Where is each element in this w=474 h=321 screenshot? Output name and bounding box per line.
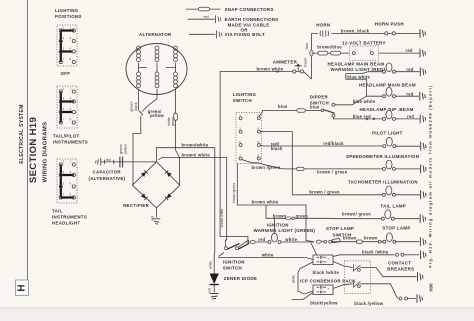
svg-text:SWITCH: SWITCH: [233, 98, 252, 103]
wire white linking condensor units: [298, 262, 313, 294]
svg-text:ELECTRICAL SYSTEM: ELECTRICAL SYSTEM: [19, 104, 25, 163]
wire brown/white upper from rectifier: [157, 148, 215, 162]
lighting switch position TAIL INSTRUMENTS HEADLIGHT: [52, 159, 87, 226]
dip beam bulb: [383, 110, 396, 120]
svg-text:white: white: [284, 237, 297, 242]
svg-text:(ALTERNATIVE): (ALTERNATIVE): [89, 176, 126, 181]
svg-text:HEADLAMP MAIN BEAM: HEADLAMP MAIN BEAM: [328, 61, 385, 66]
svg-text:brown: brown: [304, 58, 308, 68]
svg-text:CONTACT: CONTACT: [388, 261, 411, 266]
svg-text:red: red: [406, 48, 413, 53]
wire breaker 2 to earth black/yellow: [360, 284, 416, 299]
horn: [316, 22, 330, 36]
alternator coil L4: [137, 72, 141, 76]
coil interconnect wires: [139, 63, 176, 72]
svg-text:WIRING DIAGRAMS: WIRING DIAGRAMS: [43, 122, 49, 183]
svg-text:red: red: [406, 67, 413, 72]
ground horn row: [420, 29, 426, 38]
section tab letter H: [16, 280, 29, 295]
svg-text:black: black: [134, 102, 138, 110]
wire blue/red dipper to dip beam: [333, 117, 384, 119]
snap connector on speedo wire: [297, 167, 305, 170]
wire brown/green switch to speedometer: [258, 163, 297, 169]
wire brown white to ammeter: [220, 72, 293, 74]
ground contact breaker 1: [418, 272, 424, 281]
svg-text:brown, black: brown, black: [341, 28, 370, 33]
svg-text:blue white: blue white: [347, 74, 370, 79]
wire green/black from alternator: [133, 89, 143, 185]
ground battery row: [420, 49, 426, 58]
svg-text:brown/ green: brown/ green: [342, 212, 371, 217]
snap connector on tail feed: [286, 217, 291, 220]
svg-text:POSITIONS: POSITIONS: [55, 14, 82, 19]
main feed wire brown/blue vertical: [311, 33, 313, 79]
lighting switch terminal 2: [257, 117, 260, 120]
dipper switch DS: [310, 94, 335, 117]
svg-text:brown / green: brown / green: [317, 169, 348, 174]
svg-text:brown: brown: [364, 236, 378, 241]
stop lamp switch: [316, 226, 383, 243]
svg-text:brown/white: brown/white: [182, 143, 209, 148]
svg-text:PILOT LIGHT: PILOT LIGHT: [372, 131, 403, 136]
svg-text:black: black: [271, 146, 283, 151]
svg-text:blue: blue: [305, 43, 309, 50]
wire blue from switch terminal 2 to dipper: [259, 111, 297, 117]
svg-text:blue: blue: [310, 105, 320, 110]
legend: snap connector symbol: [186, 7, 221, 11]
svg-text:brown/blue: brown/blue: [317, 44, 342, 49]
snap connector on blue wire: [297, 109, 306, 112]
svg-text:RECTIFIER: RECTIFIER: [123, 203, 149, 208]
svg-text:WARNING LIGHT (GREEN): WARNING LIGHT (GREEN): [254, 228, 316, 233]
svg-text:SECTION H19: SECTION H19: [28, 117, 39, 183]
svg-text:SNAP CONNECTORS: SNAP CONNECTORS: [225, 7, 274, 12]
speedometer bulb: [383, 160, 396, 170]
ammeter A1: [273, 59, 312, 79]
svg-text:red: red: [106, 158, 111, 162]
lighting switch terminal 4: [257, 130, 260, 133]
battery B1 12-volt: [317, 40, 385, 60]
svg-text:brown / green: brown / green: [309, 190, 340, 195]
ground below rectifier: [153, 219, 161, 224]
stop lamp bulb: [383, 233, 396, 243]
svg-text:TAIL LAMP: TAIL LAMP: [380, 204, 406, 209]
svg-text:yellow: yellow: [150, 113, 165, 118]
stop switch feed from white wire: [311, 243, 318, 257]
ground tachometer row: [421, 190, 427, 199]
svg-text:brown/ white: brown/ white: [182, 152, 211, 157]
svg-text:TACHOMETER ILLUMINATION: TACHOMETER ILLUMINATION: [348, 180, 418, 185]
svg-text:SWITCH: SWITCH: [223, 265, 242, 270]
legend: earth via fixing bolt symbol: [189, 31, 222, 39]
svg-text:white: white: [292, 275, 296, 283]
svg-text:ALTERNATOR: ALTERNATOR: [139, 32, 172, 37]
svg-text:green: green: [296, 213, 309, 218]
svg-text:red: red: [407, 114, 414, 119]
svg-text:LIGHTING: LIGHTING: [233, 92, 257, 97]
wire white/green from alternator: [175, 89, 177, 113]
svg-text:red: red: [406, 91, 413, 96]
svg-text:brown /green: brown /green: [232, 183, 236, 203]
svg-text:HORN: HORN: [316, 22, 330, 27]
lighting switch terminal 7: [239, 157, 242, 160]
ground below zener: [210, 294, 219, 300]
lighting switch terminal 3: [239, 130, 242, 133]
bottom scan strip: [0, 308, 474, 321]
condensor unit 1: [313, 255, 333, 265]
lighting switch box: [233, 92, 262, 164]
svg-text:blue white: blue white: [353, 99, 376, 104]
svg-text:MADE VIA CABLE: MADE VIA CABLE: [228, 22, 270, 27]
capacitor red lead with snap connectors: [101, 157, 157, 168]
ground main beam row: [420, 92, 426, 101]
contact breaker housing: [345, 261, 371, 294]
svg-text:brown white: brown white: [220, 209, 224, 228]
alternator coil L3: [174, 46, 178, 50]
rectifier bridge frame: [132, 162, 179, 208]
tail lamp bulb: [381, 210, 394, 220]
capacitor (alternative) earth: [96, 158, 101, 166]
svg-text:red: red: [208, 288, 212, 293]
wire black/yellow condensor 2 stub: [292, 293, 314, 300]
svg-text:LIGHTING: LIGHTING: [55, 8, 79, 13]
lighting switch position TAIL/PILOT INSTRUMENTS: [53, 86, 88, 145]
ground warning light row: [420, 67, 426, 76]
condensor unit 2: [313, 285, 333, 295]
ground tail lamp row: [420, 214, 426, 223]
svg-text:OFF: OFF: [61, 71, 71, 76]
rectifier diode D4: [165, 193, 172, 200]
lighting switch position OFF: [57, 25, 77, 76]
wire red/black from switch terminal 6 to pilot: [260, 144, 385, 147]
ground dip beam row: [420, 115, 426, 124]
ground bottom row: [417, 294, 423, 303]
wire breaker 1 to earth: [360, 268, 416, 277]
alternator coil L1: [137, 46, 141, 50]
tachometer bulb: [382, 186, 395, 196]
lighting switch terminal 8: [257, 157, 260, 160]
lighting switch terminal 5: [239, 144, 242, 147]
legend: earth via cable symbol: [188, 15, 221, 23]
svg-text:blue red: blue red: [353, 114, 371, 119]
svg-text:SPEEDOMETER ILLUMINATION: SPEEDOMETER ILLUMINATION: [346, 154, 419, 159]
ignition warning lamp (green): [268, 233, 281, 243]
rectifier diode D2: [165, 170, 172, 177]
ground stop lamp row: [420, 237, 426, 246]
wire from switch terminal 4 down lamp feed: [260, 132, 292, 195]
svg-text:HEADLIGHT: HEADLIGHT: [52, 221, 80, 226]
svg-text:EARTH CONNECTIONS: EARTH CONNECTIONS: [225, 17, 279, 22]
bus B brown/white down to ignition: [225, 158, 226, 247]
svg-text:ZENER DIODE: ZENER DIODE: [224, 276, 257, 281]
warning lamp (red): [383, 63, 396, 73]
svg-text:STOP LAMP: STOP LAMP: [382, 225, 410, 230]
svg-text:red: red: [258, 237, 265, 242]
contact breaker 1: [354, 265, 361, 272]
wire white from ignition switch: [218, 257, 313, 259]
bus A brown/white down to ignition: [213, 148, 216, 259]
warning lamp red lead: [249, 241, 268, 243]
svg-text:Fig. H19. Wiring diagram all: Fig. H19. Wiring diagram all models from…: [428, 84, 433, 267]
svg-text:black /yellow: black /yellow: [354, 301, 383, 306]
pilot bulb: [383, 137, 396, 147]
rectifier diode D1: [141, 170, 148, 177]
ignition switch: [219, 243, 250, 270]
wire green/yellow from alternator centre coil: [142, 89, 157, 112]
main beam bulb: [383, 87, 396, 97]
svg-text:12-VOLT BATTERY: 12-VOLT BATTERY: [342, 40, 386, 45]
rectifier diode D3: [141, 193, 148, 200]
wire black/white condensor to breaker 1: [333, 262, 353, 268]
bus C ammeter feed down to ignition: [220, 73, 248, 247]
svg-text:brown: brown: [273, 213, 287, 218]
svg-text:BREAKERS: BREAKERS: [387, 267, 414, 272]
ground pilot row: [421, 142, 427, 151]
wire white down to zener: [213, 259, 215, 274]
warning light feed loop blue white: [346, 72, 383, 97]
svg-text:brown white: brown white: [252, 200, 279, 205]
svg-text:INSTRUMENTS: INSTRUMENTS: [52, 215, 87, 220]
battery row wire: [312, 52, 420, 54]
svg-text:ICP CONDENSOR PACK: ICP CONDENSOR PACK: [300, 279, 356, 284]
svg-text:WARNING LIGHT (RED): WARNING LIGHT (RED): [331, 67, 386, 72]
alternator coil L5: [155, 72, 159, 76]
wire blue/white dipper to main beam: [335, 96, 367, 105]
svg-text:green: green: [171, 117, 175, 126]
lighting switch terminal 6: [257, 144, 260, 147]
svg-text:STOP LAMP: STOP LAMP: [326, 226, 354, 231]
svg-text:black /white: black /white: [362, 249, 389, 254]
wire brown/white lower from rectifier: [158, 158, 226, 161]
svg-text:IGNITION: IGNITION: [267, 222, 289, 227]
svg-text:brown: brown: [343, 236, 357, 241]
svg-text:red: red: [204, 15, 209, 19]
alternator coil L6: [174, 72, 178, 76]
lighting switch terminal 1: [239, 117, 242, 120]
svg-text:red/black: red/black: [323, 141, 344, 146]
svg-text:CAPACITOR: CAPACITOR: [93, 170, 122, 175]
alternator coil L2: [155, 46, 159, 50]
sidebar rule: [26, 0, 28, 280]
svg-text:H30: H30: [429, 283, 434, 292]
svg-text:blue: blue: [278, 104, 288, 109]
ground black/white row: [421, 250, 427, 259]
svg-text:TAIL: TAIL: [52, 209, 63, 214]
wire black/white condensor to black/white row: [333, 255, 395, 257]
svg-text:white: white: [208, 261, 212, 269]
horn row wire: [312, 32, 420, 34]
svg-text:HORN PUSH: HORN PUSH: [375, 21, 404, 26]
svg-text:yellow: yellow: [123, 144, 127, 154]
svg-text:HEADLAMP MAIN BEAM: HEADLAMP MAIN BEAM: [359, 83, 416, 88]
svg-text:black /white: black /white: [313, 270, 340, 275]
wire brown green to tail feed: [266, 205, 336, 219]
warning lamp white lead: [281, 241, 314, 243]
svg-text:+: +: [328, 287, 330, 291]
ground speedometer row: [421, 165, 427, 174]
svg-text:AMMETER: AMMETER: [273, 59, 298, 64]
wire brown white below switch: [237, 164, 313, 242]
svg-text:white: white: [261, 252, 274, 257]
switch wiper from terminal 7: [242, 160, 258, 163]
wire black/yellow condensor 2 to breaker 2: [333, 284, 353, 289]
contact breaker 2: [354, 281, 361, 288]
svg-text:INSTRUMENTS: INSTRUMENTS: [53, 140, 88, 145]
svg-text:TAIL/PILOT: TAIL/PILOT: [53, 134, 80, 139]
alternator body: [126, 32, 187, 94]
svg-text:IGNITION: IGNITION: [223, 259, 245, 264]
svg-text:black/yellow: black/yellow: [310, 300, 338, 305]
svg-text:VIA FIXING BOLT: VIA FIXING BOLT: [225, 32, 265, 37]
svg-text:+: +: [328, 257, 330, 261]
horn push button: [341, 21, 404, 35]
svg-text:brown /green: brown /green: [252, 165, 281, 170]
svg-text:brown white: brown white: [257, 67, 284, 72]
svg-text:DIPPER: DIPPER: [310, 94, 329, 99]
zener diode ZD1: [210, 274, 258, 293]
rectifier earth lead red: [156, 208, 158, 218]
svg-text:H: H: [17, 284, 28, 291]
